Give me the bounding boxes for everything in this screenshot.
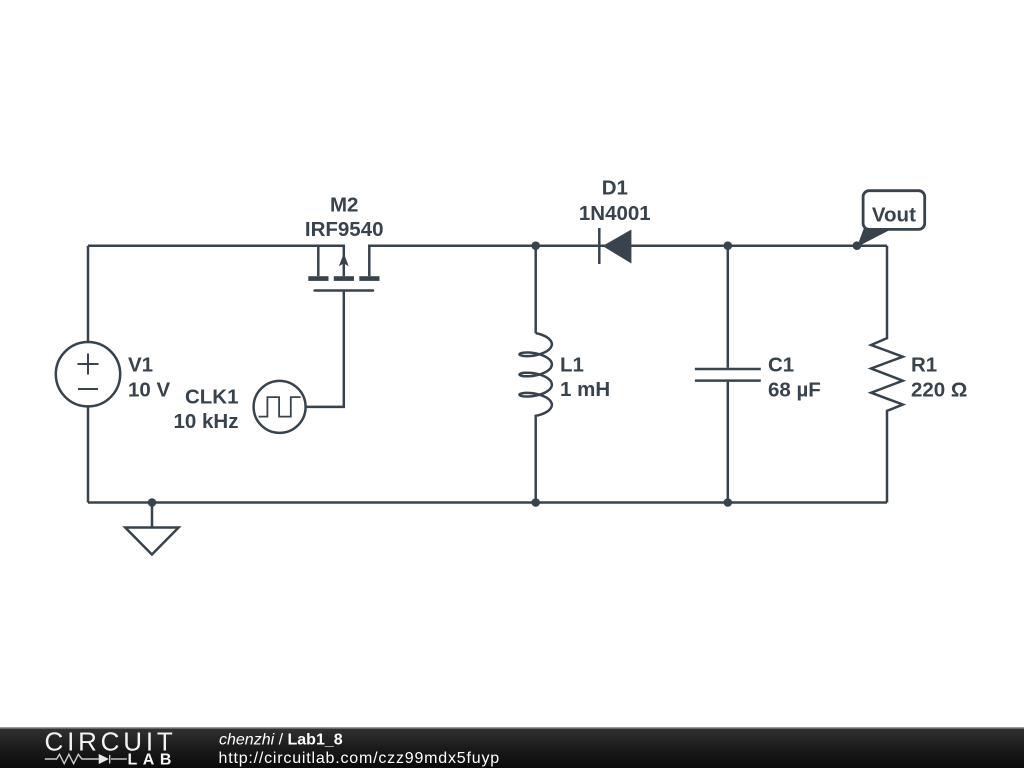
svg-text:V1: V1 [128, 354, 153, 377]
svg-text:1 mH: 1 mH [560, 378, 610, 401]
svg-text:1N4001: 1N4001 [579, 202, 651, 225]
svg-text:68 µF: 68 µF [768, 379, 821, 402]
svg-text:R1: R1 [911, 354, 937, 377]
svg-text:chenzhi / Lab1_8: chenzhi / Lab1_8 [219, 732, 343, 749]
svg-text:M2: M2 [330, 194, 358, 217]
svg-text:C1: C1 [768, 354, 794, 377]
svg-text:10 V: 10 V [128, 379, 170, 402]
svg-text:http://circuitlab.com/czz99mdx: http://circuitlab.com/czz99mdx5fuyp [219, 750, 500, 767]
svg-text:Vout: Vout [872, 203, 916, 226]
svg-text:220 Ω: 220 Ω [911, 379, 967, 402]
svg-text:IRF9540: IRF9540 [305, 218, 384, 241]
svg-text:LAB: LAB [128, 751, 177, 768]
svg-text:10 kHz: 10 kHz [174, 410, 239, 433]
svg-text:D1: D1 [602, 176, 628, 199]
svg-text:L1: L1 [560, 354, 584, 377]
svg-text:CLK1: CLK1 [185, 386, 239, 409]
